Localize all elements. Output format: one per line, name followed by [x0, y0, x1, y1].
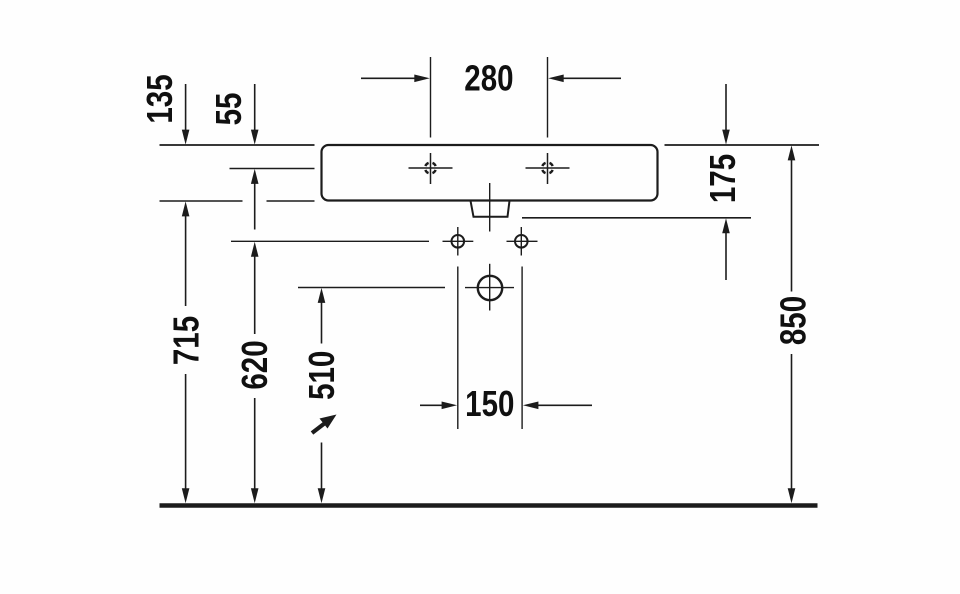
- drain hole circle: [478, 276, 502, 300]
- dim 715 upper stem: [185, 216, 187, 307]
- dim 175 lower stem: [725, 233, 727, 281]
- dim 150 right arrowhead: [523, 402, 539, 410]
- reference line 135 below rim (right part): [267, 200, 315, 202]
- dim 150 extension line right: [521, 267, 523, 430]
- tap hole T2 crosshair vertical: [547, 153, 549, 184]
- dim 620 upper stem: [254, 256, 256, 334]
- dim 135 upper stem: [185, 84, 187, 131]
- drain centre line upper: [489, 183, 491, 232]
- svg-text:280: 280: [464, 58, 513, 98]
- dim 715 lower stem: [185, 374, 187, 490]
- dim 175 upper stem: [725, 84, 727, 131]
- dim 850 lower stem: [791, 354, 793, 490]
- dim 620 up arrowhead: [251, 242, 259, 257]
- tap hole T1 dashed circle: [425, 163, 436, 174]
- reference line 620 mounting-hole level: [231, 240, 429, 242]
- reference line 510 drain level: [298, 287, 445, 289]
- dim 715 up arrowhead: [182, 201, 190, 216]
- dim 55 lower arrowhead (up): [251, 169, 259, 184]
- dim 715 down arrowhead: [182, 488, 190, 503]
- drain centre line lower (through drain hole): [489, 264, 491, 311]
- mounting hole M2 crosshair horizontal: [507, 240, 538, 242]
- svg-text:620: 620: [234, 340, 274, 389]
- drain outlet trapezoid: [471, 201, 510, 217]
- svg-text:150: 150: [465, 383, 514, 423]
- dim 850 down arrowhead: [788, 488, 796, 503]
- floor line: [160, 503, 818, 508]
- svg-text:510: 510: [301, 351, 341, 400]
- dim 150 right arrow line: [537, 404, 592, 406]
- tap hole T1 crosshair vertical: [430, 153, 432, 184]
- basin outline: [322, 145, 658, 201]
- dim 55 upper stem: [254, 84, 256, 131]
- dim 620 down arrowhead: [251, 488, 259, 503]
- tap hole T1 crosshair horizontal: [409, 167, 453, 169]
- mounting hole M1 crosshair vertical: [457, 227, 459, 256]
- dim 280 extension line left: [430, 57, 432, 138]
- dim 280 right arrowhead: [548, 75, 564, 83]
- svg-text:175: 175: [702, 154, 742, 203]
- dim 150 extension line left: [457, 267, 459, 430]
- dim 280 left arrow line: [361, 77, 416, 79]
- dim 280 extension line right: [547, 57, 549, 138]
- reference line 135 below rim (left part): [160, 200, 243, 202]
- mounting hole M1 circle: [452, 235, 465, 248]
- svg-text:850: 850: [773, 296, 813, 345]
- dim 510 upper stem: [321, 302, 323, 344]
- dim 510 lower stem: [321, 443, 323, 490]
- dim 620 lower stem: [254, 398, 256, 490]
- wall/rim reference line left (top level): [160, 144, 315, 146]
- dim 55 down arrowhead: [251, 130, 259, 145]
- tap hole T2 dashed circle: [542, 163, 553, 174]
- dim 150 left arrow line: [420, 404, 443, 406]
- mounting hole M2 circle: [515, 235, 528, 248]
- reference line 175 below rim (right): [522, 217, 751, 219]
- dim 280 left arrowhead: [414, 75, 430, 83]
- mounting hole M2 crosshair vertical: [520, 227, 522, 256]
- dim 280 right arrow line: [563, 77, 622, 79]
- svg-text:715: 715: [165, 316, 205, 365]
- svg-text:55: 55: [208, 93, 248, 126]
- installation direction arrow (pointer): [312, 415, 337, 434]
- dim 850 upper stem: [791, 160, 793, 292]
- mounting hole M1 crosshair horizontal: [443, 240, 474, 242]
- dim 850 up arrowhead: [788, 145, 796, 160]
- wall/rim reference line right (top level): [665, 144, 820, 146]
- reference line 55 below rim: [230, 168, 315, 170]
- dim 510 down arrowhead: [318, 488, 326, 503]
- svg-text:135: 135: [139, 74, 179, 123]
- dim 175 lower arrowhead (up): [722, 218, 730, 233]
- dim 510 up arrowhead: [318, 288, 326, 303]
- drain hole crosshair horizontal: [465, 287, 514, 289]
- dim 55 lower stem: [254, 183, 256, 230]
- dim 135 down arrowhead: [182, 130, 190, 145]
- dim 150 left arrowhead: [442, 402, 458, 410]
- tap hole T2 crosshair horizontal: [526, 167, 570, 169]
- dim 175 down arrowhead: [722, 130, 730, 145]
